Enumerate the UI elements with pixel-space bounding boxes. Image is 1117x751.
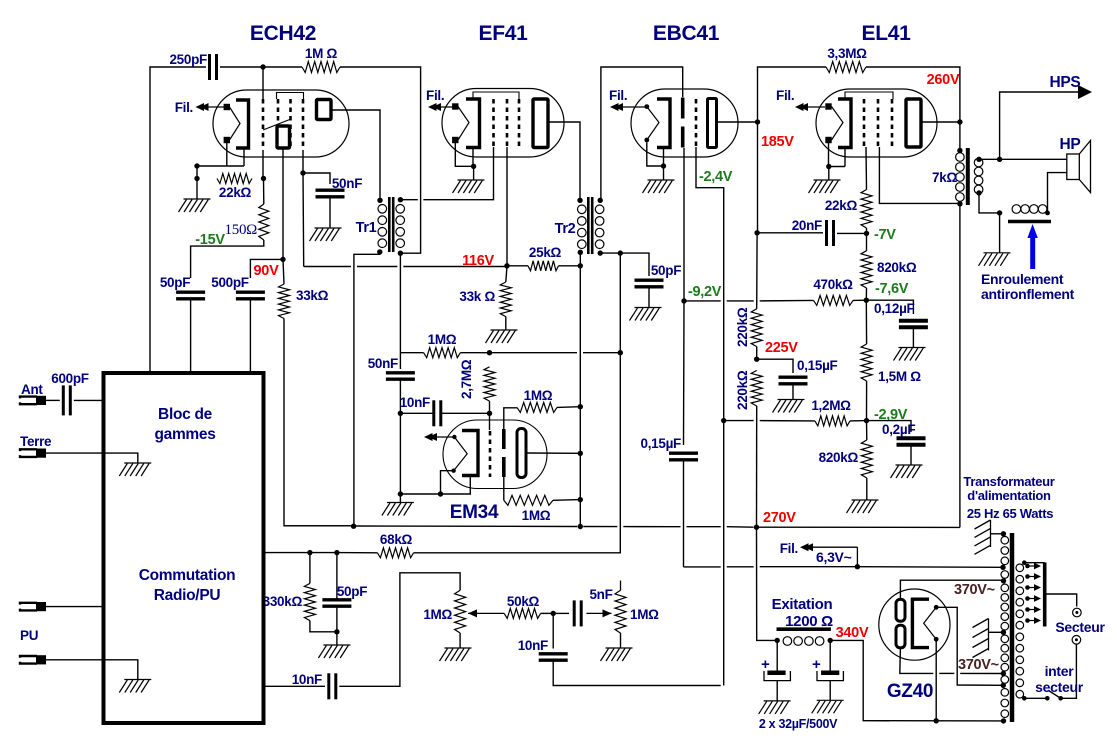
resistor 1M EM34 upper	[517, 402, 557, 412]
node 370V lower	[1001, 671, 1006, 676]
label EBC41	[653, 22, 720, 45]
inductor antironflement	[1008, 205, 1051, 222]
svg-text:d'alimentation: d'alimentation	[967, 488, 1051, 503]
capacitor 500pF	[236, 292, 265, 299]
grid EL41 g1	[863, 99, 866, 147]
ground 32uF no2	[812, 700, 844, 713]
svg-text:185V: 185V	[761, 134, 794, 150]
transformer mains left winding 2	[1001, 571, 1009, 579]
node EM34 grid	[487, 411, 492, 416]
label 33k osc	[296, 288, 329, 303]
wire AVC to Tr2 takeoff a	[490, 352, 578, 354]
node -9,2V	[681, 298, 686, 303]
pin GZ40 fil bottom	[934, 637, 939, 642]
wire GZ40 plate2 down b	[939, 672, 954, 674]
label 2x32uF	[759, 717, 838, 731]
wire EF41 cathode to ground	[473, 166, 475, 180]
svg-text:Ant: Ant	[21, 382, 43, 397]
wire 500pF to box	[249, 299, 251, 373]
wire 50nF node to ground node	[399, 413, 401, 494]
resistor 470k	[814, 295, 854, 305]
resistor 2,7M	[484, 367, 495, 401]
pin GZ40 fil top	[934, 605, 939, 610]
wire EBC41 cathode ground stem	[663, 166, 665, 180]
capacitor 50pF IF	[176, 292, 205, 299]
transformer Tr2 primary coil	[578, 205, 587, 249]
svg-text:inter: inter	[1045, 663, 1075, 679]
tube GZ40 envelope	[879, 589, 950, 660]
svg-text:220kΩ: 220kΩ	[735, 307, 750, 347]
svg-text:ECH42: ECH42	[250, 22, 316, 45]
label 820k bias	[819, 450, 859, 465]
label 50pF AVC	[337, 584, 367, 599]
wire ECH42 g1 down to 22k	[262, 150, 264, 179]
wire AVC line	[400, 352, 423, 354]
svg-text:secteur: secteur	[1035, 679, 1084, 695]
wire EF41 heater pin down	[455, 143, 473, 166]
wire PU hot to box	[46, 606, 104, 608]
chassis screen lower	[973, 619, 989, 658]
wire EBC41 anode down	[757, 122, 759, 233]
label PU	[20, 628, 38, 643]
wire EBC41 cathode down	[663, 148, 665, 167]
wire EM34 electrode down	[503, 477, 505, 500]
ground 820k bias	[847, 500, 879, 513]
wire top-left from 250pF to left rail	[150, 67, 206, 373]
svg-text:68kΩ: 68kΩ	[380, 532, 413, 547]
pin EL41 heater top	[825, 103, 831, 109]
anode GZ40 plate1	[896, 599, 905, 621]
label 1M AVC	[428, 332, 457, 347]
resistor 150 ohm	[259, 204, 269, 240]
label 33k EF41	[459, 289, 495, 304]
resistor 220k upper	[751, 309, 762, 347]
svg-text:116V: 116V	[462, 253, 494, 269]
label ECH42	[250, 22, 316, 45]
wire 1,2M right	[850, 420, 867, 422]
node EBC41 anode	[755, 119, 760, 124]
label 22k	[219, 185, 252, 200]
ground 50pF Tr2	[630, 308, 662, 321]
transformer Tr2 core	[588, 197, 592, 254]
ground 0,15uF 225V	[773, 400, 805, 413]
node 50pF 330k bottom	[334, 629, 339, 634]
wire 116V rail a	[304, 266, 351, 268]
wire antironflement ground stem	[999, 213, 1001, 253]
wire 68k line c	[337, 552, 378, 554]
tie EL41 cathode-g3 top	[845, 92, 893, 99]
filament ECH42 V	[230, 107, 241, 140]
node Tr2 270V	[578, 524, 583, 529]
wire GZ40 plate2 down a	[900, 648, 934, 673]
svg-text:1MΩ: 1MΩ	[630, 607, 659, 622]
capacitor 32uF no2	[817, 671, 843, 681]
label gammes	[154, 426, 215, 443]
anode ECH42 heptode	[317, 100, 332, 120]
label 820k	[877, 260, 917, 275]
wire EL41 cathode ground stem	[828, 167, 830, 181]
cathode EM34	[462, 431, 478, 476]
svg-text:22kΩ: 22kΩ	[219, 185, 252, 200]
svg-text:1,2MΩ: 1,2MΩ	[811, 398, 851, 413]
filament EF41 V	[458, 107, 469, 141]
wire EM34 electrode up	[504, 408, 517, 429]
capacitor 600pF	[63, 385, 70, 415]
wire EM34 fil loop	[441, 471, 455, 494]
wire 6,3V rail a	[684, 566, 721, 568]
label 330k	[263, 594, 303, 609]
svg-text:10nF: 10nF	[400, 395, 430, 410]
label 68k	[380, 532, 413, 547]
terminal Secteur 2	[1072, 636, 1081, 645]
resistor 330k	[304, 583, 315, 620]
transformer mains core	[1010, 533, 1015, 722]
label 1M pot2	[630, 607, 659, 622]
arrow HPS	[1078, 85, 1092, 99]
svg-text:Commutation: Commutation	[139, 567, 236, 584]
wire ECH42 triode anode down	[282, 148, 284, 259]
label 1,5M	[878, 369, 921, 384]
label -9,2V	[688, 284, 722, 300]
wire Tr1 sec top to EF41 g1	[400, 199, 417, 201]
node -7,6V	[864, 298, 869, 303]
label 20nF	[792, 218, 822, 233]
wire Ant to 600pF	[46, 399, 60, 401]
svg-text:7kΩ: 7kΩ	[932, 170, 957, 185]
svg-text:EF41: EF41	[479, 22, 529, 45]
stub pot2 top	[620, 581, 622, 591]
wire ECH42 cathode down	[243, 148, 245, 166]
filament arrow EM34	[424, 433, 454, 441]
speaker HP	[1067, 141, 1091, 193]
wire OT sec bottom down	[979, 193, 1000, 213]
wire EL41 g2 to OT bottom	[879, 147, 960, 203]
label 470k	[813, 277, 853, 292]
label Terre	[20, 434, 52, 449]
svg-text:820kΩ: 820kΩ	[819, 450, 859, 465]
wire AVC to Tr2 takeoff b	[583, 352, 620, 354]
node 116V EF41 g2	[504, 263, 509, 268]
label Enroulement	[981, 271, 1064, 287]
wire 1M upper to 580	[557, 406, 580, 409]
node ECH42 cathode 2	[194, 176, 199, 181]
wire 68k line b	[310, 552, 337, 554]
wire 68k line a	[264, 552, 310, 554]
wire 1M lower to 580	[553, 499, 580, 502]
wire 600pF to box	[74, 399, 104, 401]
wire -2,9V to 0,2uF	[867, 421, 912, 432]
grid ECH42 g2	[277, 99, 280, 123]
label 3,3M	[827, 46, 867, 61]
label -2,4V	[699, 169, 733, 185]
grid EF41 g2	[506, 99, 509, 147]
wire 260V down to OT	[959, 122, 961, 151]
svg-text:Radio/PU: Radio/PU	[154, 587, 221, 604]
svg-text:0,12µF: 0,12µF	[874, 301, 915, 316]
label -15V	[195, 232, 225, 248]
wire EM34 grid into tube	[489, 413, 491, 430]
anode ECH42 triode	[277, 126, 290, 148]
svg-text:+: +	[812, 656, 821, 673]
svg-text:50kΩ: 50kΩ	[507, 594, 540, 609]
connector Ant	[20, 396, 46, 405]
node OT secondary top	[976, 157, 981, 162]
wire node to 10nF2	[552, 613, 554, 648]
inductor Exitation choke	[777, 629, 831, 645]
svg-text:1MΩ: 1MΩ	[522, 508, 551, 523]
node 225V	[754, 357, 759, 362]
taps mains primary	[1025, 563, 1041, 624]
capacitor 10nF tone	[539, 654, 568, 660]
ground EF41 cathode	[453, 180, 485, 193]
transformer mains right winding	[1016, 564, 1024, 698]
svg-text:500pF: 500pF	[211, 275, 249, 290]
wire Tr2 sec bottom to AVC	[600, 253, 620, 353]
capacitor 20nF	[827, 220, 834, 246]
ground 0,12uF	[894, 348, 926, 361]
svg-text:Enroulement: Enroulement	[981, 271, 1064, 287]
label 270V	[763, 510, 796, 526]
resistor 1M AVC	[424, 348, 461, 358]
svg-text:Secteur: Secteur	[1055, 619, 1105, 635]
wire 270V to choke	[757, 527, 778, 640]
label Secteur	[1055, 619, 1105, 635]
wire 2,7M to grid node	[489, 401, 491, 413]
wire 50pF2 top stem	[336, 553, 338, 600]
node 330k top	[307, 550, 312, 555]
filament GZ40 V	[924, 607, 937, 639]
label 90V	[254, 263, 280, 279]
cathode EBC41	[657, 99, 670, 148]
capacitor 0,15uF detector	[669, 453, 698, 460]
node EM34 ground	[398, 491, 403, 496]
wire 470k line a	[684, 300, 721, 302]
ground EBC41 cathode	[643, 180, 675, 193]
svg-text:HP: HP	[1060, 136, 1081, 153]
node 25k Tr2	[578, 263, 583, 268]
label inter	[1045, 663, 1075, 679]
label GZ40	[887, 681, 933, 702]
svg-text:25 Hz 65 Watts: 25 Hz 65 Watts	[967, 506, 1053, 521]
wire EBC41 grid down	[696, 147, 724, 686]
wire switch to winding	[1024, 697, 1047, 699]
wire 90V node to 33k	[283, 259, 284, 284]
node -2,9V	[864, 418, 869, 423]
svg-text:50pF: 50pF	[160, 275, 190, 290]
svg-text:1MΩ: 1MΩ	[428, 332, 457, 347]
filament arrow ECH42	[196, 103, 225, 111]
wire 0,15uF to 6,3V rail	[683, 460, 685, 567]
svg-text:EM34: EM34	[450, 502, 499, 523]
wire 10nF to pot1	[339, 573, 460, 687]
wire selector to secteur	[1045, 594, 1077, 607]
capacitor 5nF	[574, 600, 581, 626]
wiper pot2	[586, 609, 611, 617]
svg-text:22kΩ: 22kΩ	[825, 198, 858, 213]
resistor 33k EF41	[500, 282, 511, 317]
svg-text:25kΩ: 25kΩ	[529, 245, 562, 260]
capacitor 50pF Tr2	[635, 280, 664, 287]
svg-text:Terre: Terre	[20, 434, 52, 449]
label -7,6V	[875, 281, 909, 297]
label 500pF	[211, 275, 249, 290]
svg-text:antironflement: antironflement	[981, 286, 1075, 302]
arrow blue antironflement	[1027, 224, 1037, 269]
node choke left	[775, 638, 780, 643]
switch inter secteur	[1049, 691, 1061, 699]
transformer Tr2 secondary coil	[595, 205, 604, 249]
diode plates EBC41	[681, 98, 685, 148]
svg-text:-7,6V: -7,6V	[875, 281, 909, 297]
svg-text:1,5M Ω: 1,5M Ω	[878, 369, 921, 384]
wire node to ground stem	[196, 179, 198, 200]
label 225V	[765, 340, 798, 356]
wire 580 down to rail	[579, 407, 581, 527]
wire GZ40 fil top out	[936, 607, 1003, 685]
wire -7,6V to 1,5M	[865, 300, 867, 344]
anode EBC41	[708, 99, 717, 148]
arrow Fil 6,3V	[800, 543, 857, 567]
wire 820k to -7,6V	[865, 288, 867, 300]
electrode EM34 deflector	[502, 429, 506, 477]
label Radio/PU	[154, 587, 221, 604]
node -7V	[864, 231, 869, 236]
wire -2,9V to 820k2	[866, 421, 868, 440]
wire to 50pF Tr2	[620, 253, 649, 276]
svg-text:EL41: EL41	[862, 22, 912, 45]
wire 470k line b	[727, 300, 754, 302]
wire EBC41 anode rail up	[758, 67, 827, 122]
svg-text:340V: 340V	[836, 625, 869, 641]
grid EL41 g2	[877, 99, 880, 147]
node 50pF2 top	[334, 550, 339, 555]
wire 5nF left	[553, 612, 569, 614]
resistor 220k lower	[751, 370, 762, 406]
resistor 50k	[504, 608, 540, 618]
svg-text:Transformateur: Transformateur	[963, 474, 1054, 489]
capacitor 50pF AVC	[322, 600, 351, 606]
label plus 1	[761, 656, 770, 673]
node AVC 620	[618, 350, 623, 355]
ground Terre	[119, 463, 151, 476]
node 5V winding top	[1001, 683, 1006, 688]
resistor 1,2M	[815, 416, 850, 426]
tube EF41 envelope	[442, 89, 564, 158]
svg-text:Fil.: Fil.	[609, 88, 627, 103]
wire 33k EF41 to ground	[505, 317, 507, 330]
wire -7,6V to 0,12uF	[866, 300, 913, 314]
wire 22k node to 150ohm	[263, 179, 265, 205]
svg-text:1200 Ω: 1200 Ω	[785, 613, 833, 630]
svg-text:3,3MΩ: 3,3MΩ	[827, 46, 867, 61]
wire Tr1 sec top to EF41 g1 b	[423, 147, 493, 200]
ground EL41 cathode	[809, 180, 841, 193]
label 600pF	[51, 371, 89, 386]
svg-text:Fil.: Fil.	[780, 541, 798, 556]
wire pot2 ground stem	[620, 633, 622, 648]
wire 20nF left	[757, 232, 823, 234]
node Tr2 primary bottom	[578, 250, 583, 255]
label Tr2	[555, 221, 576, 237]
label 0,12uF	[874, 301, 915, 316]
svg-text:Fil.: Fil.	[175, 100, 193, 115]
wire ECH42 heptode anode to Tr1	[331, 110, 380, 200]
svg-text:Tr1: Tr1	[356, 220, 377, 236]
capacitor 0,12uF	[899, 321, 928, 327]
label HPS	[1050, 74, 1081, 91]
resistor 1M pot2	[615, 590, 626, 633]
svg-text:Fil.: Fil.	[776, 88, 794, 103]
wire 1,5M to -2,9V	[866, 381, 868, 421]
svg-text:50pF: 50pF	[337, 584, 367, 599]
node EL41 anode	[957, 119, 962, 124]
ground 0,2uF	[891, 465, 923, 478]
wire 340V to bottom	[830, 640, 1003, 721]
node 5V winding bottom	[1001, 718, 1006, 723]
label 1M ohm	[305, 46, 338, 61]
svg-text:470kΩ: 470kΩ	[813, 277, 853, 292]
wire 10nF2 to EBC grid rail	[553, 661, 721, 686]
pin EF41 heater top	[452, 103, 458, 109]
svg-text:Exitation: Exitation	[772, 596, 833, 613]
tube EM34 envelope	[443, 420, 547, 489]
wire screen2 tap	[989, 631, 1004, 633]
svg-text:225V: 225V	[765, 340, 798, 356]
node ECH42 g1 top	[260, 64, 265, 69]
node switch right	[1058, 696, 1063, 701]
label 50nF AVC	[368, 356, 398, 371]
svg-text:33k Ω: 33k Ω	[459, 289, 495, 304]
svg-text:250pF: 250pF	[169, 52, 207, 67]
wire diode line to 0,15uF	[683, 301, 686, 445]
wire 330k bottom	[310, 621, 337, 632]
tube EL41 envelope	[816, 89, 937, 157]
wire secteur2 down	[1061, 644, 1077, 698]
wire EBC41 diode line down	[683, 148, 685, 301]
wire 250pF to node g1	[220, 66, 263, 68]
label secteur2	[1035, 679, 1084, 695]
pin EF41 heater bottom	[452, 137, 458, 143]
node Fil takeoff	[855, 564, 860, 569]
ground antironflement	[979, 253, 1011, 266]
grid EL41 g3	[891, 99, 894, 147]
resistor 22k ECH42	[217, 174, 252, 184]
resistor 1,5M	[861, 344, 872, 381]
wire 116V rail c	[403, 266, 507, 268]
wire node to 1M resistor	[263, 66, 302, 68]
svg-text:10nF: 10nF	[518, 638, 548, 653]
svg-text:220kΩ: 220kΩ	[735, 370, 750, 410]
node 22k right	[261, 176, 266, 181]
label 50nF ECH42	[332, 176, 362, 191]
resistor 820k EL41	[861, 251, 872, 288]
svg-text:2,7MΩ: 2,7MΩ	[459, 359, 474, 399]
filament arrow EF41 text	[426, 88, 444, 103]
transformer mains left winding 6	[1001, 689, 1009, 718]
svg-text:260V: 260V	[927, 72, 960, 88]
label 370V upper	[954, 582, 995, 598]
grid ECH42 g4	[302, 99, 305, 150]
filament EM34 V	[454, 437, 468, 471]
wire 50pF to box	[190, 299, 192, 373]
wire EL41 anode to OT	[921, 121, 960, 123]
label 1M pot1	[423, 607, 452, 622]
wire 50nF AVC down	[399, 380, 401, 414]
label 0,15uF det	[641, 436, 682, 451]
wire cap2 stem	[829, 640, 831, 671]
label -7V	[874, 227, 896, 243]
pin EBC41 heater bottom	[644, 138, 649, 143]
